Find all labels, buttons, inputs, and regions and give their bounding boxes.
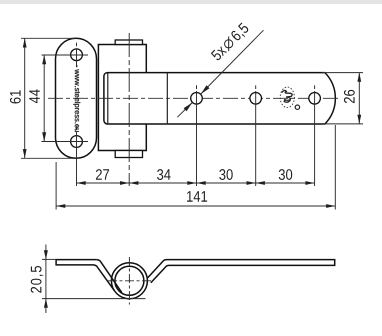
dim text 30 a	[219, 169, 232, 180]
dim 26 extension lines	[322, 73, 363, 124]
top page strip	[0, 0, 382, 4]
dim 20,5 text	[31, 266, 44, 293]
dim 44 text	[29, 89, 40, 103]
side view strap right arm	[148, 260, 335, 283]
watermark logo oval	[280, 87, 299, 109]
side view left bend outer surface	[97, 260, 122, 293]
dim 44 arrow top	[42, 55, 46, 64]
dim text 34	[157, 169, 171, 180]
side view pin horizontal centerline	[108, 280, 151, 282]
dim 20,5 extension lines	[42, 259, 146, 298]
dim 26 arrow bottom	[357, 115, 361, 124]
mounting plate (stadium outline)	[55, 38, 96, 158]
dim chain arrows	[77, 181, 86, 185]
leader arrow upper	[201, 85, 210, 94]
side view pin inner circle	[115, 266, 144, 295]
dim 20,5 arrow bottom	[44, 299, 48, 308]
strap bend tangent line	[166, 73, 168, 123]
dim chain line	[77, 182, 315, 184]
dim 26 line	[358, 73, 360, 124]
strap leaf (top view)	[104, 73, 335, 124]
strap hole 2	[250, 93, 262, 105]
dim 61 arrow top	[23, 38, 27, 47]
knuckle vertical centerline	[128, 33, 130, 186]
dim text 30 b	[279, 169, 292, 180]
leader line	[201, 30, 264, 94]
side view pin barrel outer circle	[111, 263, 147, 299]
dim 141 text	[187, 191, 207, 202]
plate hole bottom	[71, 136, 83, 148]
strap hole 3 centerline and extension	[314, 85, 316, 186]
plate hole top	[71, 49, 83, 61]
dim 141 arrow right	[326, 204, 335, 208]
plate hole bottom crosshair and extension	[42, 126, 89, 186]
vertical website text	[73, 65, 80, 132]
strap hole 1	[191, 93, 203, 105]
dim 44 line	[43, 55, 45, 142]
dim 20,5 arrow top	[44, 250, 48, 259]
strap hole 3	[309, 93, 321, 105]
side view pin vertical centerline	[128, 257, 130, 305]
strap hole 1 centerline and extension	[196, 85, 198, 186]
dim 61 extension lines	[21, 38, 77, 158]
plate hole top crosshair	[42, 43, 89, 68]
leader arrow lower	[184, 103, 193, 112]
strap left bend edge	[107, 73, 109, 124]
dim 26 text	[344, 90, 355, 103]
leader tail	[177, 103, 192, 118]
dim 44 arrow bottom	[42, 132, 46, 141]
pin boss tab bottom	[115, 151, 142, 158]
dim 61 arrow bottom	[23, 149, 27, 158]
side view left bend inner surface	[94, 265, 115, 291]
dim 141 extension lines	[56, 125, 335, 210]
dim 26 arrow top	[357, 73, 361, 82]
strap hole 2 centerline and extension	[255, 85, 257, 186]
dim 61 line	[24, 38, 26, 158]
main horizontal centerline	[48, 97, 340, 99]
dim 20,5 line	[45, 245, 47, 314]
side view left plate bar	[56, 260, 97, 265]
dim 141 line	[56, 205, 335, 207]
dim 61 text	[10, 90, 21, 103]
hinge knuckle body	[98, 45, 146, 151]
dim text 27	[96, 169, 109, 180]
leader text 5x diameter 6,5	[210, 22, 251, 63]
pin boss tab top	[115, 40, 142, 45]
dim 141 arrow left	[56, 204, 65, 208]
